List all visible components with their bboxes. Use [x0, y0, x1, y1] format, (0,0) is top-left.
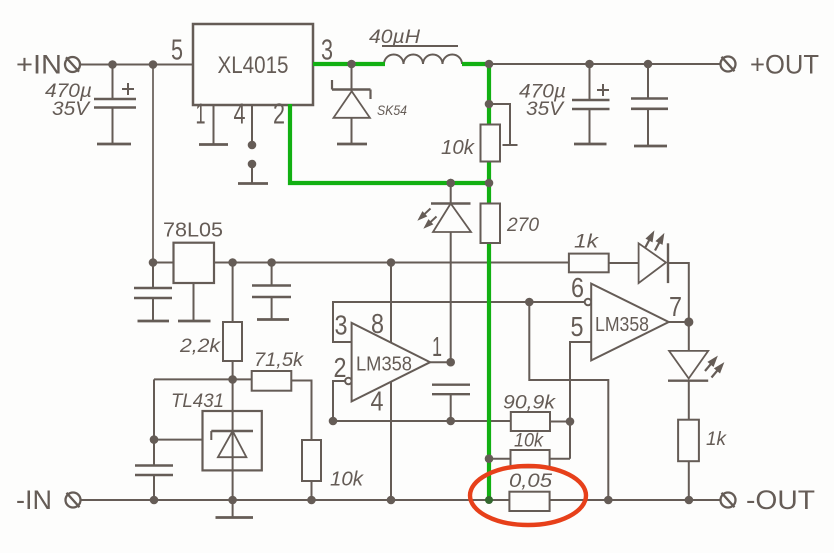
resistor 2.2k: [223, 322, 242, 361]
svg-text:2,2k: 2,2k: [179, 335, 221, 357]
wire ref node down: [153, 379, 155, 439]
svg-text:+OUT: +OUT: [750, 50, 819, 80]
svg-text:-OUT: -OUT: [746, 485, 815, 515]
junction tl431 ref: [150, 435, 159, 444]
svg-text:6: 6: [571, 272, 584, 303]
svg-text:2: 2: [334, 352, 347, 383]
svg-text:78L05: 78L05: [163, 219, 223, 242]
junction opto branch: [446, 179, 455, 188]
junction dot pin4 b: [248, 160, 257, 169]
svg-text:4: 4: [371, 386, 384, 417]
svg-text:0,05: 0,05: [509, 470, 552, 492]
wire green 270 to bus: [487, 243, 491, 500]
ground under output cap1: [574, 143, 607, 146]
junction bus 232.6: [228, 496, 237, 505]
wire LED1 to op2 output: [668, 263, 689, 322]
wire op1 power pins 8-4: [390, 263, 392, 501]
wire 78L05 ground pin: [193, 283, 195, 321]
svg-text:10k: 10k: [441, 136, 476, 159]
junction bus 689: [685, 496, 694, 505]
resistor 71.5k: [252, 371, 292, 391]
junction on green at diode: [347, 60, 356, 69]
svg-text:7: 7: [669, 291, 682, 322]
wire op2 pin6 branch: [529, 302, 608, 500]
svg-text:+IN: +IN: [16, 50, 62, 80]
capacitor output 470u/35V: [572, 64, 610, 144]
svg-text:3: 3: [321, 35, 333, 67]
svg-text:LM358: LM358: [595, 314, 649, 336]
junction dot pin4 a: [248, 141, 257, 150]
resistor 0.05 shunt: [509, 492, 549, 511]
green wires group: [290, 62, 489, 500]
capacitor ref filter: [135, 440, 173, 500]
resistor 10k sense: [511, 450, 550, 467]
junction bus 608: [604, 496, 613, 505]
terminal -OUT: [721, 493, 736, 508]
junction input cap node: [108, 60, 117, 69]
bubble op2 pin6: [585, 299, 592, 306]
wire bottom bus right: [550, 499, 720, 501]
junction green at bus: [485, 496, 493, 504]
svg-text:4: 4: [234, 99, 246, 131]
regulator 78L05 box: [174, 243, 215, 283]
LED D3 green: [639, 243, 668, 283]
svg-text:1k: 1k: [706, 428, 727, 450]
svg-text:40µH: 40µH: [369, 27, 420, 48]
terminal +OUT: [721, 57, 736, 72]
wire ref node left: [154, 378, 252, 380]
wire op1 output: [430, 361, 451, 363]
resistor 10k divider low: [302, 440, 321, 481]
svg-text:270: 270: [506, 214, 539, 236]
terminal -IN: [66, 493, 81, 508]
svg-text:71,5k: 71,5k: [254, 349, 304, 371]
junction green cross node: [485, 179, 494, 188]
junction op1 output: [446, 358, 455, 367]
wire 10k divider to bus: [311, 481, 313, 500]
shunt regulator TL431 box: [203, 411, 262, 470]
wire pin4 to ground: [251, 164, 253, 183]
junction rail at 153: [149, 258, 158, 267]
svg-text:35V: 35V: [526, 99, 566, 120]
ground under 78L05: [178, 320, 211, 323]
svg-text:1: 1: [432, 331, 442, 362]
bubble op1 pin2: [345, 378, 352, 385]
wire 5V rail left: [153, 262, 174, 264]
resistor 1k LED: [678, 420, 699, 462]
junction 90.9k to pin5: [566, 417, 575, 426]
junction pot top: [485, 100, 494, 109]
resistor 1k top: [569, 254, 609, 273]
svg-text:3: 3: [335, 310, 348, 341]
wire rail to 2.2k: [232, 263, 234, 323]
junction opto LED top: [446, 179, 455, 188]
svg-text:8: 8: [371, 308, 384, 339]
wire green pin2 elbow: [290, 104, 489, 183]
ground under input cap: [97, 143, 131, 146]
ground under output cap2: [634, 145, 667, 148]
svg-text:1: 1: [196, 99, 206, 131]
pot wiper tick: [503, 144, 518, 146]
svg-text:TL431: TL431: [171, 390, 224, 412]
svg-text:35V: 35V: [52, 99, 92, 120]
junction 78L05 feed node: [149, 60, 158, 69]
resistor 270: [481, 204, 501, 244]
wire 1k to LED1: [609, 262, 638, 264]
capacitor output ceramic: [631, 64, 668, 146]
diode D1 SK54 schottky: [332, 64, 371, 144]
capacitor input 470u/35V: [94, 65, 136, 145]
junction pin6 node: [525, 298, 534, 307]
junction green inductor node: [485, 60, 494, 69]
junction out cap2: [644, 60, 653, 69]
pot wiper wire: [489, 104, 510, 145]
ground under rail right cap: [257, 318, 289, 321]
pin 1 stub wire: [213, 105, 215, 144]
svg-text:-IN: -IN: [16, 485, 52, 515]
wire bottom bus left: [81, 499, 510, 501]
junction rail at 391: [387, 258, 396, 267]
inductor L1 40uH: [382, 46, 462, 64]
wire down to 78L05 rail: [152, 65, 154, 263]
junction op2 output: [684, 317, 693, 326]
op-amp U2A LM358 triangle: [352, 323, 431, 402]
wire green inductor to node: [462, 62, 489, 66]
opto LED D2: [431, 183, 471, 362]
wire 10k sense right lead: [550, 458, 570, 460]
svg-text:90,9k: 90,9k: [503, 392, 556, 414]
junction bus 311.5: [307, 496, 316, 505]
wire TL431 anode ground stub: [232, 500, 234, 518]
opto LED arrows: [415, 206, 439, 232]
wire 1k LED to bus: [688, 461, 690, 500]
wire green pot to 270: [487, 162, 491, 204]
resistor 90.9k: [511, 412, 550, 431]
wire op2 output: [669, 321, 689, 323]
ground under pin 4: [238, 182, 268, 185]
wire 10k sense left lead: [489, 458, 511, 460]
svg-text:5: 5: [571, 311, 584, 342]
wire +IN to XL4015 pin 5: [81, 64, 194, 66]
LED D4 arrows: [702, 353, 727, 380]
capacitor op1 feedback: [432, 385, 470, 421]
LED D4 red: [668, 322, 708, 420]
junction pin2 to fb line: [329, 417, 338, 426]
LED D3 arrows: [641, 228, 667, 252]
svg-text:5: 5: [171, 35, 183, 67]
op-amp U2B LM358 triangle: [591, 284, 669, 361]
wire 71.5k to 10k divider: [291, 381, 311, 441]
op-amp U1 XL4015 box: [193, 24, 313, 105]
wire feedback node line: [333, 420, 511, 422]
junction cap to fb line: [446, 417, 455, 426]
junction bus 391: [387, 496, 396, 505]
highlight ellipse red: [470, 466, 586, 525]
wire op2 pin5 branch: [570, 342, 591, 459]
svg-text:XL4015: XL4015: [218, 52, 289, 79]
wire ref to TL431 box: [154, 439, 203, 441]
pin 4 stub wire: [251, 105, 253, 145]
wire green node down to pot: [487, 62, 491, 125]
terminal +IN: [65, 57, 80, 72]
wire 5V rail right: [214, 262, 569, 264]
wire green pin3 to inductor: [313, 62, 385, 66]
TL431 symbol: [211, 431, 253, 457]
wire op1 pin3 input: [333, 302, 585, 342]
svg-text:LM358: LM358: [356, 354, 412, 376]
ground under rail left cap: [138, 320, 170, 323]
svg-text:1k: 1k: [574, 231, 599, 253]
wire 90.9k right lead: [550, 421, 570, 423]
capacitor rail right: [252, 263, 291, 320]
junction bus 154: [150, 496, 159, 505]
svg-text:10k: 10k: [514, 430, 544, 452]
svg-text:SK54: SK54: [377, 103, 407, 118]
svg-text:2: 2: [273, 99, 285, 131]
svg-text:10k: 10k: [330, 468, 365, 491]
wire 2.2k to TL431 cathode: [232, 361, 234, 500]
junction rail at 271.6: [267, 258, 276, 267]
capacitor rail left: [134, 263, 172, 322]
wire op1 pin2 input: [333, 381, 345, 421]
resistor 10k adjustable: [481, 125, 501, 162]
junction rail at 232.6: [228, 258, 237, 267]
ground under bus: [216, 516, 254, 519]
junction out cap1: [585, 60, 594, 69]
wire +OUT rail: [489, 63, 720, 65]
junction ref node: [228, 375, 237, 384]
junction 10k sense to green: [485, 454, 494, 463]
ground under SK54: [337, 143, 367, 146]
ground under pin 1: [199, 143, 228, 146]
